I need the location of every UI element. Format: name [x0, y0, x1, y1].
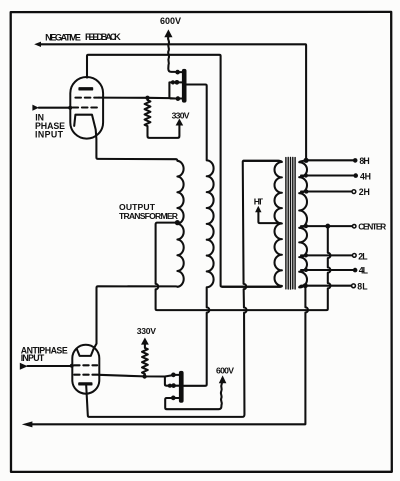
svg-text:2L: 2L [358, 251, 368, 261]
svg-text:NEGATIVE: NEGATIVE [45, 33, 81, 43]
svg-text:4H: 4H [360, 172, 371, 182]
svg-text:600V: 600V [216, 366, 234, 376]
svg-text:TRANSFORMER: TRANSFORMER [119, 211, 179, 221]
svg-text:8L: 8L [357, 282, 368, 292]
svg-text:330V: 330V [172, 111, 190, 121]
svg-text:600V: 600V [160, 16, 181, 26]
svg-text:2H: 2H [359, 187, 370, 197]
svg-text:4L: 4L [359, 265, 369, 275]
svg-text:FEEDBACK: FEEDBACK [85, 32, 121, 42]
svg-text:INPUT: INPUT [21, 353, 45, 363]
svg-text:CENTER: CENTER [358, 222, 386, 232]
svg-text:330V: 330V [137, 326, 157, 336]
svg-text:HT: HT [254, 197, 264, 207]
svg-text:8H: 8H [359, 156, 369, 166]
svg-text:INPUT: INPUT [35, 129, 64, 139]
